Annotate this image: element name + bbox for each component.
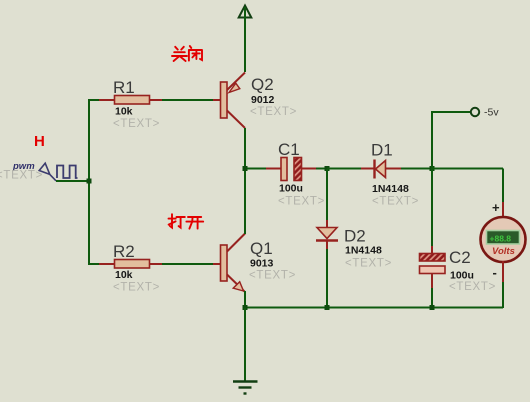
svg-text:<TEXT>: <TEXT> xyxy=(113,282,160,294)
junction C2 bottom node xyxy=(430,305,435,310)
transistor Q1 xyxy=(221,234,297,292)
svg-text:C2: C2 xyxy=(449,248,471,267)
ground xyxy=(233,382,258,394)
wire power to Q2 emitter xyxy=(244,7,246,72)
label 打开 (red) xyxy=(169,214,204,228)
wire left vertical xyxy=(88,99,90,265)
svg-text:<TEXT>: <TEXT> xyxy=(249,270,296,282)
wire R1 to Q2 base xyxy=(162,99,213,101)
pwm generator xyxy=(0,161,78,182)
junction C1 node xyxy=(243,166,248,171)
svg-text:10k: 10k xyxy=(115,269,133,281)
wire Q1 emitter to bottom rail xyxy=(244,291,246,308)
terminal -5v xyxy=(432,107,499,119)
label 关闭 (red) xyxy=(172,46,202,61)
svg-text:R1: R1 xyxy=(113,78,135,97)
svg-text:1N4148: 1N4148 xyxy=(372,183,409,195)
svg-text:1N4148: 1N4148 xyxy=(345,245,382,257)
svg-text:-: - xyxy=(493,265,497,280)
wire to ground xyxy=(244,308,246,382)
svg-text:<TEXT>: <TEXT> xyxy=(278,196,325,208)
svg-text:100u: 100u xyxy=(450,270,474,282)
svg-text:<TEXT>: <TEXT> xyxy=(449,281,496,293)
junction D2 node xyxy=(325,166,330,171)
capacitor C1 xyxy=(247,140,327,208)
svg-text:+: + xyxy=(492,200,500,215)
svg-text:-5v: -5v xyxy=(484,107,499,119)
svg-text:10k: 10k xyxy=(115,106,133,118)
svg-text:R2: R2 xyxy=(113,242,135,261)
svg-text:9012: 9012 xyxy=(251,94,275,106)
svg-text:<TEXT>: <TEXT> xyxy=(250,106,297,118)
diode D1 xyxy=(327,141,432,208)
wire pwm to left vertical xyxy=(56,180,89,182)
junction pwm node xyxy=(87,179,92,184)
svg-text:C1: C1 xyxy=(278,140,300,159)
svg-text:H: H xyxy=(34,133,45,150)
svg-text:Volts: Volts xyxy=(492,246,515,257)
svg-text:<TEXT>: <TEXT> xyxy=(372,196,419,208)
bottom rail wire xyxy=(245,307,503,309)
svg-text:100u: 100u xyxy=(279,183,303,195)
svg-text:D1: D1 xyxy=(371,141,393,160)
junction D2 bottom node xyxy=(325,305,330,310)
transistor Q2 xyxy=(221,73,298,129)
diode D2 xyxy=(316,169,392,308)
resistor R1 xyxy=(99,78,162,130)
svg-text:<TEXT>: <TEXT> xyxy=(345,258,392,270)
wire -5v vertical to C2 xyxy=(431,111,433,246)
junction -5v node xyxy=(430,166,435,171)
svg-text:<TEXT>: <TEXT> xyxy=(113,118,160,130)
capacitor C2 xyxy=(420,246,497,308)
svg-text:Q1: Q1 xyxy=(250,239,273,258)
junction Q1 emitter node xyxy=(243,305,248,310)
svg-text:<TEXT>: <TEXT> xyxy=(0,170,43,182)
power symbol (up arrow) xyxy=(239,6,252,18)
wire middle vertical (Q2 collector to Q1 collector) xyxy=(244,128,246,234)
resistor R2 xyxy=(99,242,162,294)
svg-text:9013: 9013 xyxy=(250,258,274,270)
svg-text:D2: D2 xyxy=(344,227,366,246)
wire R2 to Q1 base xyxy=(162,263,213,265)
wire voltmeter to bottom rail xyxy=(502,261,504,282)
svg-text:+88.8: +88.8 xyxy=(490,234,512,244)
wire D1 node to voltmeter xyxy=(432,168,503,170)
voltmeter U1 xyxy=(481,200,526,280)
svg-text:Q2: Q2 xyxy=(251,75,274,94)
